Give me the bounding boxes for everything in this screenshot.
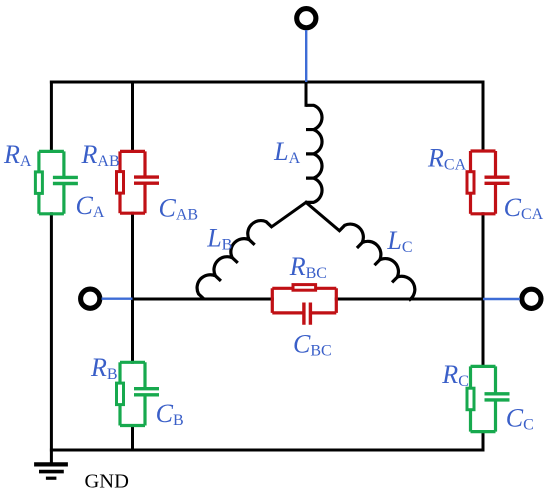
resistor R_B [117, 383, 124, 405]
blue wire left terminal [102, 298, 133, 300]
inductor L_B [192, 216, 271, 299]
wire middle horizontal [133, 298, 484, 301]
component loop R_A C_A [39, 151, 64, 213]
svg-text:GND: GND [85, 471, 129, 493]
wire diagonal junction to L_C [306, 202, 339, 230]
resistor R_BC [293, 285, 316, 291]
wire vertical B branch [131, 82, 134, 450]
inductor L_C [339, 219, 421, 300]
terminal right [522, 289, 541, 308]
resistor R_C [467, 388, 474, 410]
resistor R_A [35, 172, 42, 194]
blue wire top terminal [305, 30, 307, 82]
terminal top [297, 9, 316, 28]
capacitor C_AB [134, 177, 159, 183]
inductor L_A [306, 105, 322, 202]
component loop R_AB C_AB [120, 151, 145, 213]
wire left vertical [50, 82, 53, 463]
capacitor C_A [53, 177, 78, 183]
component loop R_C C_C [471, 366, 496, 431]
capacitor C_B [134, 389, 159, 395]
blue wire right terminal [483, 298, 520, 300]
capacitor C_CA [485, 177, 510, 183]
resistor R_AB [117, 172, 124, 194]
component loop R_CA C_CA [471, 151, 496, 214]
wire top stem to L_A [305, 82, 308, 105]
capacitor C_BC [304, 303, 311, 325]
capacitor C_C [485, 394, 510, 400]
wire diagonal junction to L_B [272, 202, 306, 226]
ground [34, 464, 68, 478]
terminal left [81, 289, 100, 308]
resistor R_CA [467, 172, 474, 194]
component loop R_B C_B [120, 362, 145, 425]
wire top [51, 81, 483, 84]
wire bottom [51, 449, 483, 452]
wire right vertical [482, 82, 485, 450]
component loop R_BC C_BC [272, 288, 336, 313]
